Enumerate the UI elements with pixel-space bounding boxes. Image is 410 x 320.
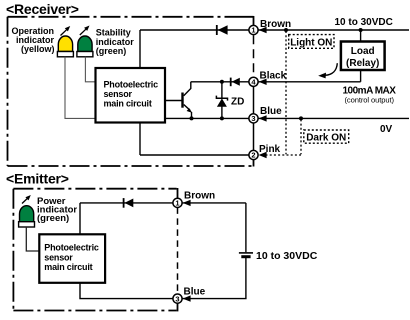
svg-text:(yellow): (yellow) [21,44,55,54]
terminal pin 2 [249,150,258,159]
wire: main circuit top riser to brown line [139,30,141,68]
wire: yellow LED lead to main circuit [65,57,96,119]
svg-text:(green): (green) [96,46,127,56]
wire: battery right side down [245,203,247,252]
wire: black line from collector to load [191,81,361,83]
svg-text:2: 2 [251,151,255,160]
LED D2 light arrow [80,26,90,36]
junction blue/dotted [299,116,303,120]
load (relay) box [341,42,385,71]
terminal pin 1 [249,25,258,34]
Receiver enclosure border (dash-dot) [8,16,254,167]
wire: load bottom to black line [360,70,362,82]
arrow into pin 3 [259,115,267,121]
LED D5 light arrow [22,195,31,204]
Receiver connector boundary dashed between pins 1 and 4 [253,35,255,76]
junction brown/dotted [284,28,288,32]
svg-text:(green): (green) [37,213,69,224]
transistor Q1 [181,82,192,119]
wire: load top [360,30,362,42]
Dark ON option box [304,130,349,144]
wire: green LED lead to emitter circuit [26,227,39,251]
svg-text:(control output): (control output) [345,95,395,104]
wire: green LED lead to main circuit [85,57,95,82]
svg-text:Blue: Blue [184,286,206,297]
svg-text:Brown: Brown [260,19,291,30]
terminal pin 3 emitter [173,294,182,303]
receiver photoelectric sensor main circuit U1 [96,68,166,123]
junction emitter/blue [190,116,194,120]
dotted pink extension wire [266,154,302,156]
diode D6 on emitter brown line [123,198,134,208]
wire: brown line (pin 1) [140,29,409,31]
junction ZD top [220,80,224,84]
svg-text:main circuit: main circuit [104,98,152,108]
svg-text:Pink: Pink [259,144,281,155]
svg-text:1: 1 [175,199,179,208]
wire: battery bottom to blue [182,258,246,299]
svg-text:Blue: Blue [260,106,282,117]
svg-text:10 to 30VDC: 10 to 30VDC [335,17,393,28]
dotted select line: brown to pink (Light ON option) [285,31,287,154]
LED D5 power indicator (green) [19,206,35,227]
terminal pin 3 [249,114,258,123]
arrow into pin 2 [259,152,267,158]
svg-text:3: 3 [175,294,179,303]
svg-text:Dark ON: Dark ON [306,133,346,144]
svg-text:1: 1 [251,26,255,35]
svg-text:3: 3 [251,114,255,123]
LED D1 light arrow [61,26,71,36]
junction ZD bottom [220,116,224,120]
zener diode ZD [216,82,227,119]
svg-text:(Relay): (Relay) [346,58,379,69]
LED D1 operation indicator (yellow) [57,36,73,57]
wire: emitter brown line [80,202,246,204]
svg-text:Load: Load [351,46,375,57]
arrow into emitter pin 1 [183,200,191,206]
arrow into emitter pin 3 [183,295,191,301]
terminal pin 4 [249,77,258,86]
svg-text:Black: Black [260,70,287,81]
svg-text:sensor: sensor [44,252,73,262]
wire: pin4 to pin2 vertical (boundary) [253,82,255,155]
junction brown/load [359,28,363,32]
diode D3 on brown line [216,25,228,35]
arrow into pin 4 [259,79,267,85]
stability indicator label [96,28,135,56]
svg-text:10 to 30VDC: 10 to 30VDC [256,250,318,262]
wire: pink line to pin 2 [140,154,249,156]
svg-text:Light ON: Light ON [290,37,332,48]
emitter photoelectric sensor main circuit U2 [39,234,105,282]
svg-text:0V: 0V [380,124,393,135]
Emitter boundary dashed between pins [177,207,179,294]
curved annotation arrow [318,63,337,78]
battery BT1 [239,253,253,257]
Light ON option box [289,35,334,49]
LED D2 stability indicator (green) [77,36,93,57]
wire: emitter circuit bottom to pin 3 [80,283,173,299]
Emitter enclosure border (dash-dot) [13,188,177,311]
wire: emitter circuit top riser [79,203,81,234]
svg-text:Brown: Brown [184,190,215,201]
operation indicator label [11,26,54,54]
svg-text:<Receiver>: <Receiver> [6,1,79,17]
wire: blue line (0V) [165,117,409,119]
svg-text:ZD: ZD [231,97,244,108]
wire: main circuit bottom to pink line [139,123,141,156]
transistor Q1 base wire [165,100,182,102]
dotted select line: blue junction to pink (Dark ON option) [300,119,302,154]
svg-text:<Emitter>: <Emitter> [6,171,69,187]
svg-text:Photoelectric: Photoelectric [44,243,99,253]
power indicator label [37,196,77,224]
terminal pin 1 emitter [173,198,182,207]
arrow into pin 1 [259,27,267,33]
diode D4 on black line [230,78,240,87]
svg-text:main circuit: main circuit [44,262,92,272]
